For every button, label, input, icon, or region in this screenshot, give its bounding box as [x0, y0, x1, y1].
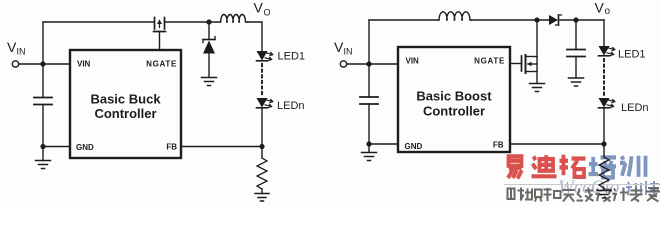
transistor Q2 (NMOS boost switch) — [522, 55, 538, 83]
易 red — [508, 156, 522, 178]
node: FB junction (left) — [259, 144, 264, 149]
svg-text:V: V — [334, 39, 344, 55]
线 — [577, 188, 594, 202]
ground (output cap) — [569, 78, 584, 86]
node: switch node — [206, 19, 211, 24]
watermark line 1: 易迪拓培训 (hand-drawn glyph approximations) — [508, 155, 646, 179]
node: input junction — [40, 61, 45, 66]
svg-text:Basic Buck: Basic Buck — [90, 92, 161, 107]
diode D1 (Schottky freewheeling), cathode up — [203, 37, 215, 54]
wire: output corner to LED chain — [603, 20, 605, 46]
wire: terminal to VIN pin — [347, 63, 398, 65]
wire: left rail up — [368, 20, 370, 64]
svg-text:V: V — [7, 39, 17, 55]
wire: diode stem from switch node — [208, 22, 210, 39]
inductor L1 — [221, 14, 248, 22]
svg-text:IN: IN — [17, 47, 26, 57]
wire: resistor to ground — [261, 189, 263, 193]
svg-text:NGATE: NGATE — [146, 60, 177, 69]
wire: ground stem (right input) — [368, 144, 370, 152]
LED LEDn (right) — [599, 98, 616, 108]
LED LED1 (right) — [599, 46, 616, 56]
svg-text:V: V — [595, 0, 605, 16]
和 — [544, 188, 561, 201]
svg-text:LEDn: LEDn — [277, 100, 305, 112]
wire: terminal to VIN pin — [19, 63, 70, 65]
svg-text:Basic Boost: Basic Boost — [416, 89, 492, 104]
ground (right input) — [362, 153, 377, 161]
svg-text:GND: GND — [76, 143, 94, 152]
net label VO (left) — [254, 0, 271, 18]
svg-text:O: O — [264, 8, 271, 18]
wire: GND pin — [43, 146, 70, 148]
resistor R1 (current sense) — [257, 158, 267, 189]
wire: left rail down to capacitor — [368, 64, 370, 97]
wire: output cap stem — [575, 20, 577, 50]
wire: left rail down to capacitor — [42, 64, 44, 98]
capacitor C2 — [360, 97, 378, 104]
wire: top rail to inductor — [369, 19, 439, 21]
wire: GND pin (right) — [369, 143, 398, 145]
wire: diode anode to ground — [208, 54, 210, 78]
训 blue — [620, 156, 646, 177]
svg-text:Controller: Controller — [94, 106, 156, 121]
ground (MOSFET source) — [530, 84, 545, 92]
node: input junction (right) — [366, 61, 371, 66]
wire: drain riser — [536, 20, 538, 57]
LED LEDn (left) — [257, 98, 274, 108]
wire: cap to ground — [575, 57, 577, 78]
svg-text:FB: FB — [493, 141, 504, 150]
node: output node — [573, 17, 578, 22]
wire: capacitor to ground junction — [368, 104, 370, 144]
wire: left rail up to top — [42, 22, 44, 64]
svg-text:V: V — [254, 0, 264, 16]
transistor Q1 (PMOS high-side switch) — [154, 18, 166, 32]
wire: FB pin to junction (right) — [510, 143, 604, 145]
dotted wire: LED string — [261, 64, 263, 96]
dotted wire: LED string (right) — [603, 59, 605, 96]
inductor L2 — [439, 12, 471, 20]
diode D2 (Schottky rectifier), pointing right — [549, 15, 562, 25]
node: FB junction (right) — [601, 141, 606, 146]
node: GND junction (right) — [366, 141, 371, 146]
input terminal (right) — [340, 61, 346, 67]
专 — [630, 188, 643, 202]
svg-text:o: o — [605, 6, 611, 17]
node: switch node (right) — [534, 17, 539, 22]
wire: LEDn to FB junction — [261, 108, 263, 147]
wire: transistor to switch node — [165, 21, 221, 23]
射 — [508, 188, 525, 201]
net label VIN (right) — [334, 39, 353, 57]
wire: resistor to ground (right) — [603, 188, 605, 190]
wire: NGATE to gate — [159, 32, 161, 51]
net label VO (right) — [595, 0, 611, 17]
capacitor C3 (output) — [567, 50, 585, 57]
svg-text:FB: FB — [166, 143, 177, 152]
wire: top rail to transistor — [43, 21, 154, 23]
培 blue — [589, 157, 617, 178]
wire: capacitor to ground junction — [42, 105, 44, 147]
svg-text:VIN: VIN — [406, 57, 420, 66]
IC U1: Basic Buck Controller — [70, 50, 181, 158]
wire: diode to output node — [560, 19, 604, 21]
wire: inductor to switch node — [471, 19, 549, 21]
ground (diode) — [202, 78, 217, 86]
拓 red — [560, 155, 586, 177]
watermark line 2: 射频和天线设计专家 — [508, 187, 661, 202]
ground (sense resistor) — [255, 194, 269, 202]
频 — [525, 189, 542, 202]
svg-text:GND: GND — [405, 142, 423, 151]
node: GND junction — [40, 144, 45, 149]
天 — [563, 190, 575, 202]
wire: NGATE to gate (right) — [510, 63, 522, 65]
wire: junction to resistor (right) — [603, 144, 605, 157]
计 — [613, 188, 628, 202]
svg-text:Controller: Controller — [423, 104, 485, 119]
wire: FB pin to junction — [181, 146, 262, 148]
svg-text:IN: IN — [344, 47, 353, 57]
watermark overlay: WccQion 维库 italic — [558, 177, 659, 198]
capacitor C1 — [34, 98, 52, 105]
svg-text:LEDn: LEDn — [621, 102, 649, 114]
svg-text:LED1: LED1 — [618, 49, 646, 61]
家 — [646, 187, 660, 202]
input terminal (left) — [12, 61, 18, 67]
ground (input) — [36, 161, 51, 169]
IC U2: Basic Boost Controller — [398, 47, 510, 152]
wire: ground stem — [42, 147, 44, 161]
net label VIN (left) — [7, 39, 26, 57]
wire: junction to resistor — [261, 147, 263, 159]
ground (right sense resistor) — [597, 191, 611, 199]
设 — [596, 189, 611, 202]
wire: inductor to LED chain corner — [248, 22, 262, 51]
watermark divider line — [504, 184, 661, 186]
resistor R2 (current sense) — [599, 157, 609, 188]
wire: LEDn to FB junction (right) — [603, 108, 605, 144]
LED LED1 (left) — [257, 51, 274, 61]
svg-text:VIN: VIN — [77, 60, 91, 69]
svg-text:LED1: LED1 — [278, 51, 306, 63]
迪 red — [532, 155, 557, 176]
svg-text:NGATE: NGATE — [474, 57, 505, 66]
